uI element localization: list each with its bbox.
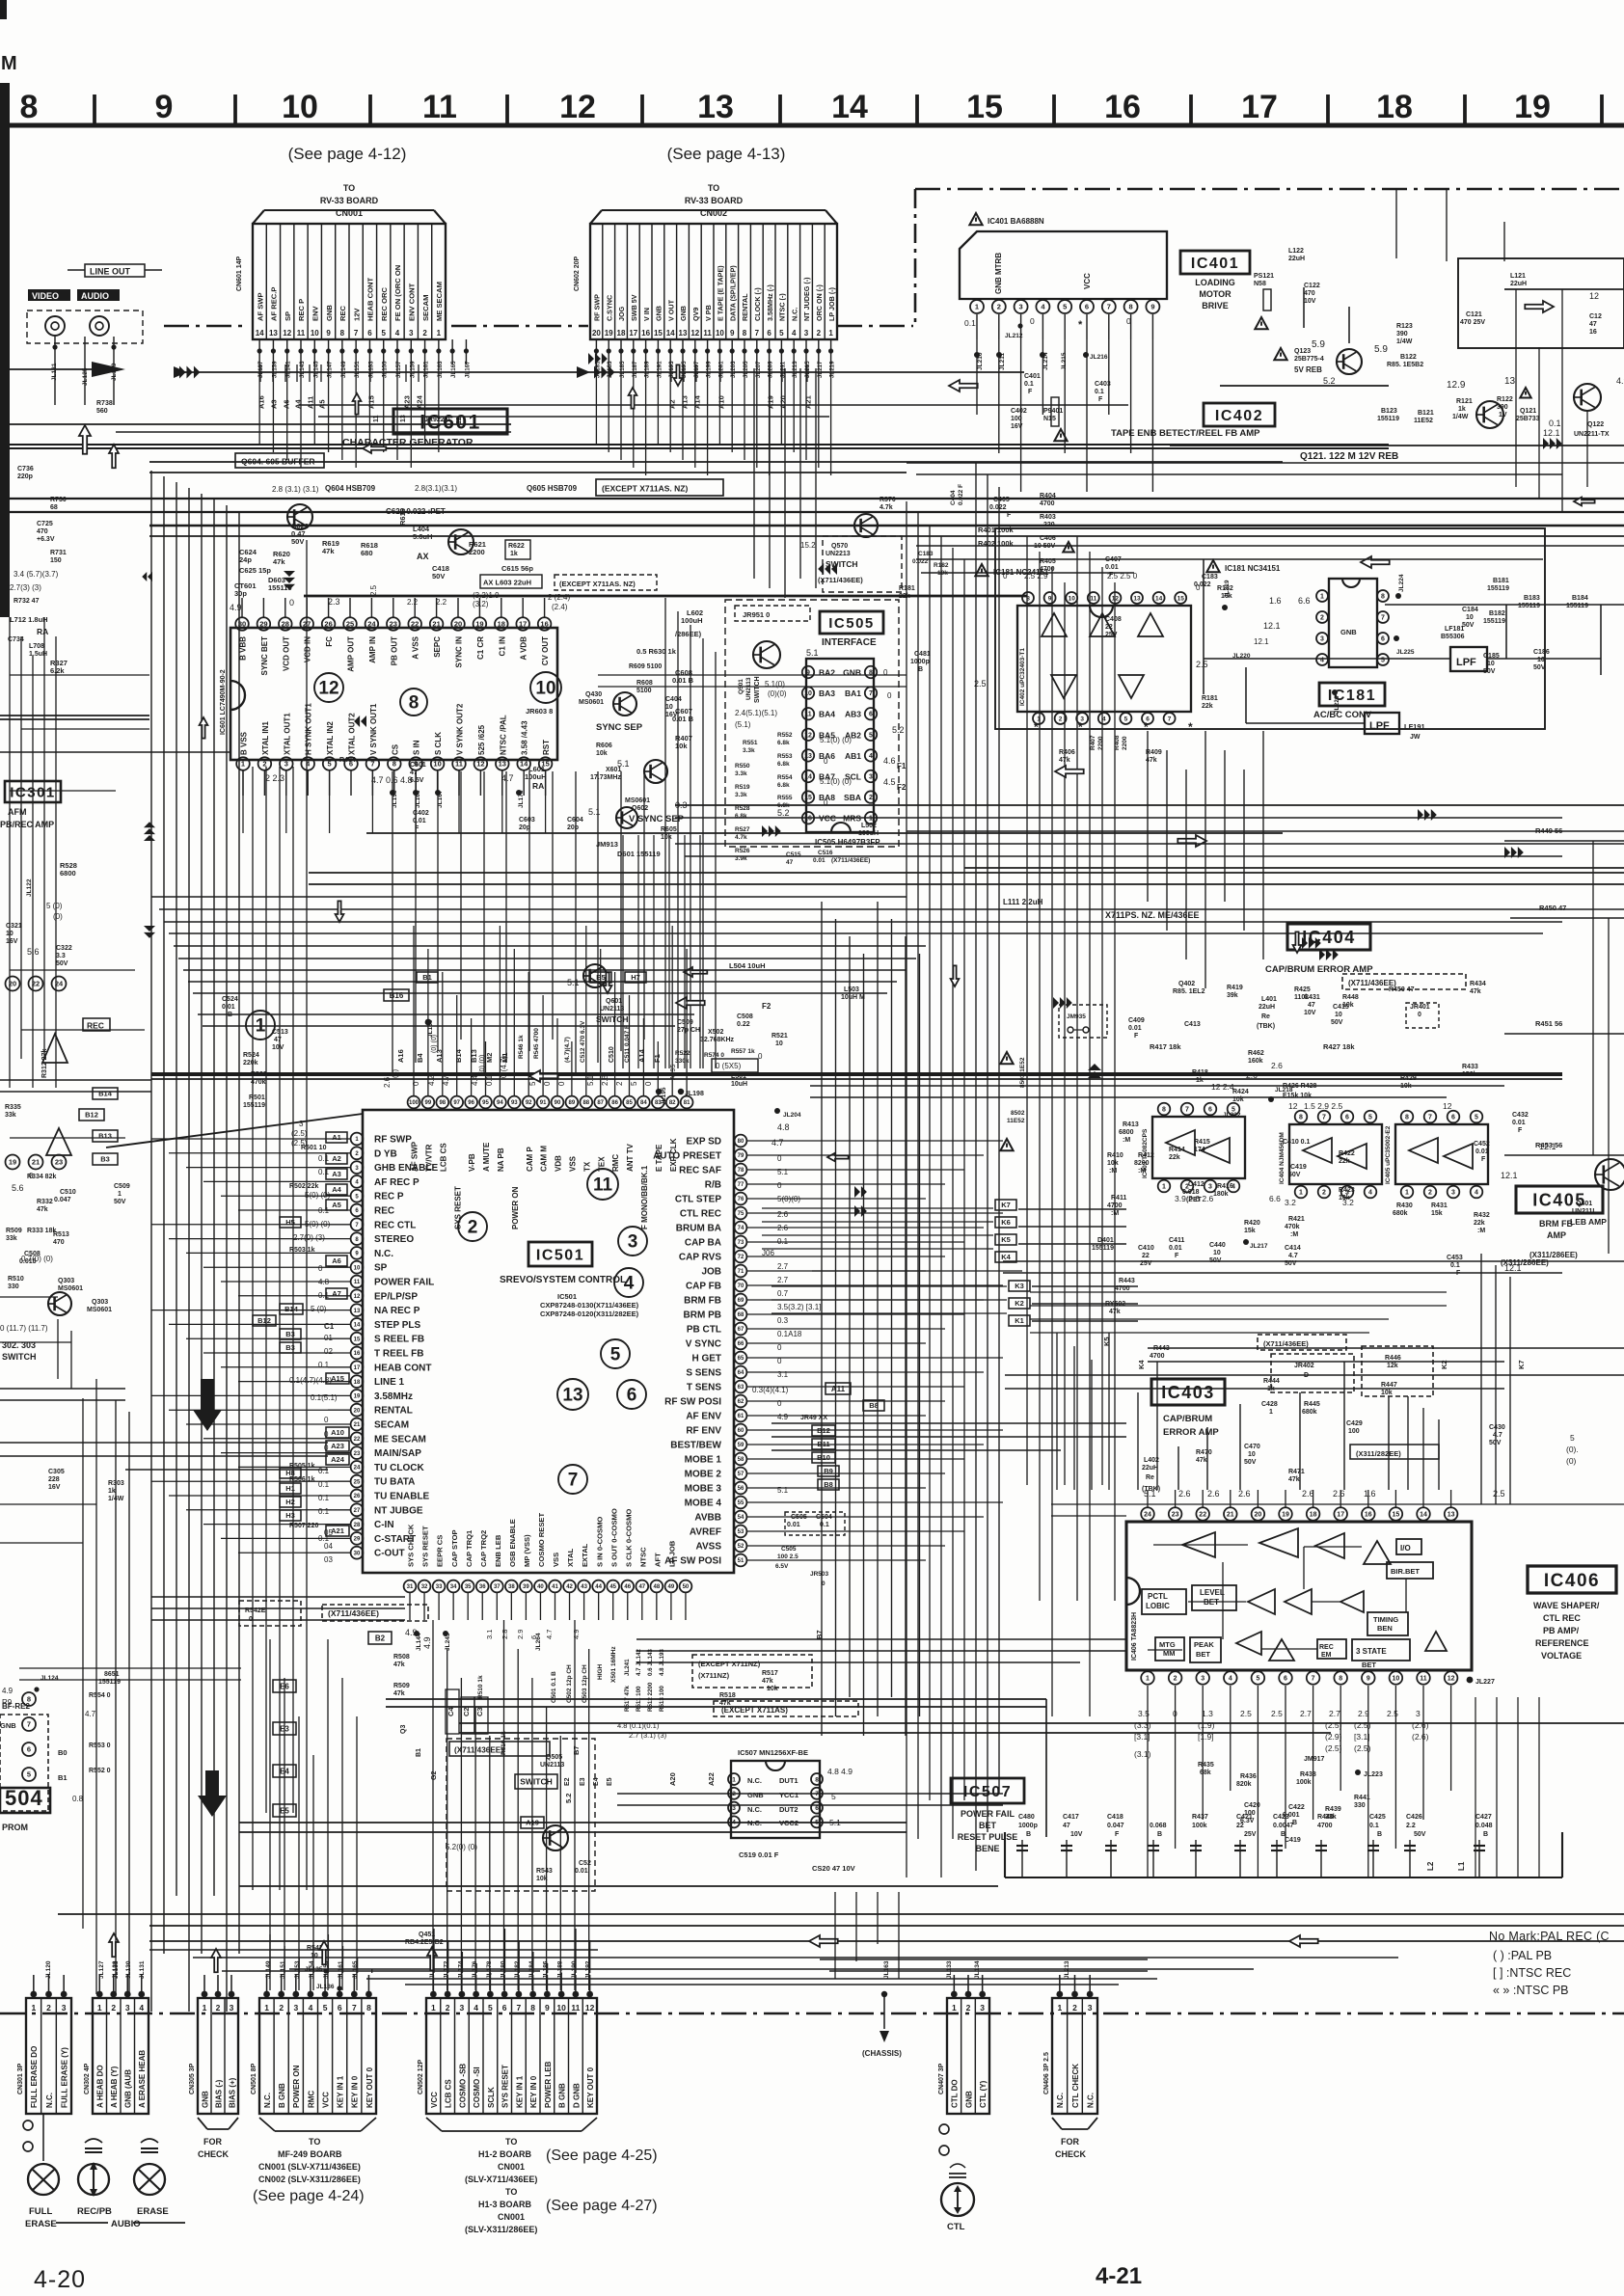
svg-text:9: 9 xyxy=(326,329,331,338)
svg-text:JL217: JL217 xyxy=(1250,1243,1268,1250)
svg-text:8: 8 xyxy=(743,329,747,338)
svg-text:VOLTAGE: VOLTAGE xyxy=(1541,1651,1582,1661)
svg-text:25V: 25V xyxy=(1105,632,1118,638)
svg-text:47k: 47k xyxy=(37,1206,48,1213)
svg-text:R85. 1E5B2: R85. 1E5B2 xyxy=(1387,362,1423,368)
svg-text:2.7: 2.7 xyxy=(777,1276,789,1284)
svg-text:RA: RA xyxy=(532,781,544,791)
svg-text:FE ON (ORC ON: FE ON (ORC ON xyxy=(393,265,402,321)
wire IC501 right bus xyxy=(771,1140,1003,1142)
wire IC406 internals xyxy=(1153,1544,1248,1546)
svg-text:REC: REC xyxy=(374,1206,394,1217)
svg-text:V-PB: V-PB xyxy=(468,1153,476,1172)
svg-text:N.C.: N.C. xyxy=(263,2093,272,2108)
svg-text:B55306: B55306 xyxy=(1441,634,1465,640)
wire vertical IC404 feeds xyxy=(1147,731,1149,902)
svg-text:VSS: VSS xyxy=(569,1155,578,1172)
svg-text:(CHASSIS): (CHASSIS) xyxy=(862,2049,902,2058)
dashed box Q570 xyxy=(823,536,902,592)
svg-text:HEAB CONT: HEAB CONT xyxy=(374,1363,431,1373)
ruler xyxy=(10,123,1624,128)
svg-text:CTL: CTL xyxy=(947,2222,965,2232)
svg-text:IC181: IC181 xyxy=(1328,688,1376,704)
svg-text:2 (2.4): 2 (2.4) xyxy=(548,593,570,602)
svg-text:JL205: JL205 xyxy=(743,361,749,378)
svg-text:MOTOR: MOTOR xyxy=(1199,289,1232,299)
svg-text:(SLV-X711/436EE): (SLV-X711/436EE) xyxy=(465,2174,537,2184)
svg-text:R526: R526 xyxy=(735,848,750,854)
svg-text:50V: 50V xyxy=(291,537,304,546)
annotation circle 5 xyxy=(601,1339,630,1368)
svg-text:82: 82 xyxy=(669,1100,676,1106)
svg-text:NA REC P: NA REC P xyxy=(374,1306,420,1316)
svg-text:(3.1): (3.1) xyxy=(1134,1749,1151,1759)
svg-text:1k: 1k xyxy=(1196,1077,1204,1084)
svg-text:24: 24 xyxy=(1144,1512,1151,1519)
annotation circle 8 xyxy=(400,689,427,716)
svg-text:R451 56: R451 56 xyxy=(1535,1019,1562,1028)
svg-text:CTL REC: CTL REC xyxy=(680,1209,721,1220)
svg-text:1: 1 xyxy=(1269,1409,1273,1416)
svg-text:A15: A15 xyxy=(367,395,376,409)
svg-text:47: 47 xyxy=(1589,321,1597,328)
svg-text:16V: 16V xyxy=(48,1484,61,1491)
svg-text:174: 174 xyxy=(1194,1147,1205,1153)
svg-text:B0: B0 xyxy=(58,1748,68,1757)
svg-text:BA1: BA1 xyxy=(845,689,861,698)
svg-text:7: 7 xyxy=(1428,1115,1432,1121)
svg-text:R423: R423 xyxy=(1339,1187,1355,1194)
svg-text:0.048: 0.048 xyxy=(1475,1823,1493,1829)
svg-text:70: 70 xyxy=(738,1283,744,1289)
svg-text:LINE OUT: LINE OUT xyxy=(90,267,131,277)
svg-text:37: 37 xyxy=(494,1584,501,1590)
svg-text:RV-33 BOARD: RV-33 BOARD xyxy=(685,196,744,205)
junction JL243 xyxy=(443,1631,448,1636)
svg-text:R122: R122 xyxy=(1497,396,1513,403)
board boundary chain line xyxy=(164,325,249,328)
svg-text:100uH: 100uH xyxy=(858,830,879,837)
svg-text:22k: 22k xyxy=(899,593,910,600)
svg-text:R437: R437 xyxy=(1192,1814,1208,1821)
svg-text:6: 6 xyxy=(338,2003,342,2012)
annotation circle 11 xyxy=(587,1169,618,1200)
svg-text:AX: AX xyxy=(417,552,429,561)
svg-text:20p: 20p xyxy=(519,824,530,831)
svg-text:CN602 20P: CN602 20P xyxy=(574,256,581,291)
svg-text:R509: R509 xyxy=(393,1683,410,1689)
svg-text:2: 2 xyxy=(1072,2003,1077,2012)
svg-text:2: 2 xyxy=(216,2003,221,2012)
svg-text:K4: K4 xyxy=(1001,1253,1011,1261)
svg-text:78: 78 xyxy=(738,1168,744,1174)
svg-text:IC402 uPC32403-T1: IC402 uPC32403-T1 xyxy=(1019,648,1026,706)
svg-text:IC501: IC501 xyxy=(536,1247,584,1263)
svg-text:13: 13 xyxy=(804,753,812,760)
svg-text:3.2: 3.2 xyxy=(1285,1198,1296,1207)
svg-text:SP: SP xyxy=(284,311,292,321)
IC501 label xyxy=(528,1242,592,1266)
svg-text:5: 5 xyxy=(1256,1676,1259,1683)
svg-text:CN301 3P: CN301 3P xyxy=(17,2063,24,2094)
svg-text:QV9: QV9 xyxy=(691,308,700,321)
svg-text:JL124: JL124 xyxy=(41,1675,59,1682)
svg-text:3.3k: 3.3k xyxy=(735,792,747,798)
svg-text:COSMO -SI: COSMO -SI xyxy=(473,2066,481,2108)
svg-text:22uH: 22uH xyxy=(1259,1004,1275,1011)
svg-text:JL163: JL163 xyxy=(437,361,444,378)
svg-text:47: 47 xyxy=(274,1037,282,1043)
wire bundle right vertical xyxy=(906,501,907,1877)
wire left margin bundle low xyxy=(95,1379,97,1994)
svg-text:GNB: GNB xyxy=(964,2091,973,2108)
svg-text:L501: L501 xyxy=(731,1073,746,1080)
svg-text:0.1(5.1): 0.1(5.1) xyxy=(311,1393,338,1402)
wire bundle center vertical xyxy=(664,598,666,1068)
svg-text:12.1: 12.1 xyxy=(1263,621,1281,631)
svg-text:C603: C603 xyxy=(519,817,535,824)
svg-text:R557 1k: R557 1k xyxy=(731,1048,755,1055)
svg-text:50V: 50V xyxy=(1209,1257,1222,1264)
svg-text:68: 68 xyxy=(738,1312,744,1318)
svg-text:AFM: AFM xyxy=(8,807,27,817)
svg-text:C12: C12 xyxy=(1589,313,1602,320)
svg-text:(3.2): (3.2) xyxy=(473,600,489,608)
svg-text:155119: 155119 xyxy=(1377,416,1399,422)
svg-text:SBA: SBA xyxy=(844,793,861,802)
annotation circle 6 xyxy=(617,1380,646,1409)
svg-text:R85. 1EL2: R85. 1EL2 xyxy=(1173,988,1205,995)
svg-text:AFT: AFT xyxy=(653,1553,662,1567)
svg-text:11: 11 xyxy=(571,2003,580,2012)
svg-text:A VDB: A VDB xyxy=(520,636,528,661)
svg-text:0.3: 0.3 xyxy=(777,1316,789,1325)
node pin 6 xyxy=(22,1742,36,1756)
svg-text:R/B: R/B xyxy=(705,1180,721,1191)
svg-text:R438: R438 xyxy=(1300,1771,1316,1778)
wire right verticals midlow xyxy=(1137,1392,1139,1490)
page edge bar xyxy=(0,83,10,617)
svg-text:5: 5 xyxy=(869,732,873,739)
svg-text:30p: 30p xyxy=(234,589,247,598)
svg-text:R470: R470 xyxy=(1196,1449,1212,1456)
svg-text:GNB: GNB xyxy=(655,306,663,321)
svg-text:B122: B122 xyxy=(1400,354,1417,361)
svg-text:PB CTL: PB CTL xyxy=(687,1325,721,1336)
svg-text:22: 22 xyxy=(1236,1823,1244,1829)
svg-text:(2.6): (2.6) xyxy=(1412,1720,1429,1730)
svg-text:NTSC (-): NTSC (-) xyxy=(778,293,787,321)
svg-text:47k: 47k xyxy=(1470,988,1481,995)
svg-text:B181: B181 xyxy=(1493,578,1509,584)
svg-text:POWER ON: POWER ON xyxy=(292,2065,301,2108)
svg-text:AX L603 22uH: AX L603 22uH xyxy=(483,579,531,587)
svg-text:2: 2 xyxy=(446,2003,450,2012)
svg-text:A24: A24 xyxy=(331,1455,345,1464)
svg-text:14: 14 xyxy=(256,329,264,338)
wires IC181 xyxy=(1204,658,1450,660)
svg-text:IC401 BA6888N: IC401 BA6888N xyxy=(988,217,1044,226)
svg-text:R9: R9 xyxy=(2,1698,13,1707)
svg-text:FULL ERASE (Y): FULL ERASE (Y) xyxy=(61,2047,69,2108)
svg-text:TU ENABLE: TU ENABLE xyxy=(374,1492,430,1502)
IC401 pins xyxy=(970,300,984,313)
svg-text:10k: 10k xyxy=(675,742,688,750)
svg-text:(4.7)(4.7): (4.7)(4.7) xyxy=(564,1037,571,1063)
svg-text:51: 51 xyxy=(738,1558,744,1564)
svg-text:25V: 25V xyxy=(1140,1260,1152,1267)
svg-text:TO: TO xyxy=(708,183,719,193)
svg-text:0.018: 0.018 xyxy=(1182,1189,1200,1196)
svg-text:B182: B182 xyxy=(1489,610,1505,617)
svg-text:53: 53 xyxy=(738,1529,744,1535)
svg-text:0.047: 0.047 xyxy=(1107,1823,1124,1829)
svg-text:C419: C419 xyxy=(1290,1164,1307,1171)
svg-text:K6: K6 xyxy=(1001,1218,1011,1227)
svg-text:57: 57 xyxy=(738,1472,744,1477)
svg-text:5.9: 5.9 xyxy=(1312,339,1325,350)
svg-text:2.5: 2.5 xyxy=(1271,1709,1283,1718)
svg-text:STEREO: STEREO xyxy=(374,1234,414,1245)
svg-text:2: 2 xyxy=(46,2003,51,2012)
svg-text:88: 88 xyxy=(582,1100,589,1106)
svg-text:C501 0.1 B: C501 0.1 B xyxy=(551,1671,557,1703)
svg-text:B4: B4 xyxy=(416,1053,424,1063)
svg-text:155119: 155119 xyxy=(1487,585,1509,592)
bracket CN406 xyxy=(1052,2118,1062,2129)
svg-text:13: 13 xyxy=(1448,1512,1455,1519)
arrow to line out xyxy=(92,362,125,377)
svg-text:0.22: 0.22 xyxy=(737,1021,750,1028)
svg-text:JL198: JL198 xyxy=(685,1091,704,1097)
svg-text:4700: 4700 xyxy=(1317,1823,1333,1829)
svg-text:C186: C186 xyxy=(1533,649,1550,656)
LPF box LF181 xyxy=(1450,647,1487,671)
svg-text:M: M xyxy=(1,53,17,74)
svg-text:C183: C183 xyxy=(1202,574,1218,581)
svg-text:N.C.: N.C. xyxy=(747,1819,762,1827)
op-amp U IC507 chip xyxy=(731,1761,820,1838)
svg-text:LPF: LPF xyxy=(1456,657,1476,668)
svg-text:0: 0 xyxy=(777,1181,782,1190)
svg-text:1: 1 xyxy=(97,2003,102,2012)
wire JM913 xyxy=(366,832,1283,834)
svg-text:68: 68 xyxy=(50,504,58,511)
svg-text:JL136: JL136 xyxy=(316,1984,335,1990)
svg-text:BA2: BA2 xyxy=(819,668,835,678)
svg-text:66: 66 xyxy=(738,1341,744,1347)
svg-text:50V: 50V xyxy=(56,960,68,967)
svg-text:B2: B2 xyxy=(375,1634,386,1642)
svg-text:1: 1 xyxy=(1162,1184,1166,1191)
svg-text:R554 0: R554 0 xyxy=(89,1692,111,1699)
svg-text:14: 14 xyxy=(520,760,528,769)
connector CN407 xyxy=(947,1998,989,2114)
svg-text:R606: R606 xyxy=(596,743,612,749)
svg-text:C725: C725 xyxy=(37,521,53,527)
transistor Q401 xyxy=(1595,1159,1624,1190)
svg-text:JL189: JL189 xyxy=(644,361,651,378)
svg-text:40: 40 xyxy=(537,1584,544,1590)
svg-text:H1-3 BOARB: H1-3 BOARB xyxy=(478,2200,532,2209)
svg-text:56: 56 xyxy=(738,1486,744,1492)
svg-text:A14: A14 xyxy=(693,394,702,409)
svg-text:11: 11 xyxy=(422,89,457,125)
svg-text:OSB ENABLE: OSB ENABLE xyxy=(508,1519,517,1567)
chevrons up left dip xyxy=(1088,1071,1101,1078)
svg-text:(EXCEPT X711AS. NZ): (EXCEPT X711AS. NZ) xyxy=(602,484,688,494)
svg-text:25B733: 25B733 xyxy=(1516,416,1540,422)
svg-text:3.3k: 3.3k xyxy=(743,747,755,754)
svg-text:GNB: GNB xyxy=(0,1721,16,1730)
svg-text:BEST/BEW: BEST/BEW xyxy=(670,1441,721,1451)
svg-text:N.C.: N.C. xyxy=(45,2093,54,2108)
svg-text:2: 2 xyxy=(997,303,1001,311)
svg-text:IC406 TA8823H: IC406 TA8823H xyxy=(1131,1612,1138,1661)
svg-text:R335: R335 xyxy=(5,1104,21,1111)
svg-text:C430: C430 xyxy=(1489,1424,1505,1431)
svg-text:BET: BET xyxy=(1196,1650,1210,1659)
svg-text:CN601 14P: CN601 14P xyxy=(236,256,243,291)
svg-text:AB1: AB1 xyxy=(845,751,861,761)
svg-text:04: 04 xyxy=(324,1542,333,1551)
svg-text:9: 9 xyxy=(1048,595,1052,602)
svg-text:JL213: JL213 xyxy=(792,361,798,378)
svg-text:50V: 50V xyxy=(114,1199,126,1205)
svg-text:C421: C421 xyxy=(1236,1814,1253,1821)
svg-text:F: F xyxy=(1134,1033,1139,1040)
svg-text:C1: C1 xyxy=(324,1322,335,1331)
svg-text:C470: C470 xyxy=(1244,1444,1260,1450)
svg-text:17: 17 xyxy=(629,329,637,338)
arrow marks band xyxy=(676,997,705,1009)
svg-text:14: 14 xyxy=(354,1323,361,1329)
svg-text:6: 6 xyxy=(502,2003,507,2012)
svg-text:TO: TO xyxy=(505,2137,517,2147)
svg-text:C1 CR: C1 CR xyxy=(476,636,485,660)
label AUDIO xyxy=(77,289,120,301)
svg-text:JM935: JM935 xyxy=(1067,1013,1086,1020)
svg-text:JL120: JL120 xyxy=(45,1960,52,1979)
svg-text:2: 2 xyxy=(615,1081,624,1086)
svg-text:V OUT: V OUT xyxy=(666,299,675,321)
svg-text:1k: 1k xyxy=(510,551,518,557)
svg-text:MOBE 1: MOBE 1 xyxy=(685,1455,722,1466)
svg-text:65: 65 xyxy=(738,1356,744,1362)
svg-text:A195: A195 xyxy=(670,1065,677,1080)
svg-text:ENV: ENV xyxy=(311,305,319,321)
svg-text:22: 22 xyxy=(1105,624,1113,631)
svg-text:AMP IN: AMP IN xyxy=(368,636,377,663)
IC507 label xyxy=(951,1778,1024,1803)
svg-text:2: 2 xyxy=(1059,716,1063,722)
svg-text:0.1: 0.1 xyxy=(1024,381,1034,388)
svg-text:C481: C481 xyxy=(914,651,931,658)
svg-text:T SENS: T SENS xyxy=(687,1383,721,1393)
svg-text:7: 7 xyxy=(352,2003,357,2012)
svg-text:F: F xyxy=(1175,1253,1179,1259)
svg-text:01: 01 xyxy=(324,1334,333,1342)
svg-text:JL209: JL209 xyxy=(768,361,774,378)
svg-text:C413: C413 xyxy=(1184,1021,1201,1028)
svg-text:5.1(0) (0): 5.1(0) (0) xyxy=(820,777,852,786)
svg-text:47k: 47k xyxy=(322,547,335,555)
svg-text:R551: R551 xyxy=(743,740,758,746)
svg-text:0: 0 xyxy=(1126,316,1131,326)
wire bundle left vertical xyxy=(150,471,152,2012)
svg-text:JR503: JR503 xyxy=(810,1571,829,1578)
wire bus 386 xyxy=(174,371,1024,373)
annotation circle 2 xyxy=(458,1212,487,1241)
svg-text:2: 2 xyxy=(817,329,822,338)
svg-text:10: 10 xyxy=(556,2003,566,2012)
wire band mid xyxy=(151,896,907,898)
svg-text:B VBB: B VBB xyxy=(239,636,248,661)
svg-text:0.047: 0.047 xyxy=(54,1197,71,1203)
svg-text:R508: R508 xyxy=(393,1654,410,1661)
svg-text:10k: 10k xyxy=(767,1686,778,1692)
svg-text:11: 11 xyxy=(455,760,463,769)
svg-text:R521: R521 xyxy=(771,1033,788,1040)
svg-text:20: 20 xyxy=(354,1408,361,1414)
svg-text:26: 26 xyxy=(324,620,332,629)
svg-text:HEAB CONT: HEAB CONT xyxy=(366,277,375,321)
svg-text:R420: R420 xyxy=(1244,1220,1260,1227)
svg-text:0.1A18: 0.1A18 xyxy=(777,1330,802,1338)
IC501 left node boxes xyxy=(326,1132,347,1143)
svg-text:0.022 F: 0.022 F xyxy=(958,484,964,505)
svg-text:C405: C405 xyxy=(993,497,1010,503)
svg-text:F: F xyxy=(1098,396,1103,403)
svg-text:5: 5 xyxy=(328,760,332,769)
svg-text:7: 7 xyxy=(869,690,873,697)
svg-text:R462: R462 xyxy=(1248,1050,1264,1057)
inductor L603 xyxy=(480,575,542,588)
junctions JL210-216 xyxy=(974,352,980,358)
wire long bus pair y517-545 xyxy=(0,498,1624,500)
svg-text:6.5V: 6.5V xyxy=(410,777,424,784)
svg-text:JL241: JL241 xyxy=(624,1659,631,1676)
svg-text:F2: F2 xyxy=(897,783,907,792)
wire verticals into CN501 xyxy=(269,1934,271,1973)
svg-text:6800: 6800 xyxy=(1119,1129,1134,1136)
svg-text:C404: C404 xyxy=(950,490,957,505)
svg-text:12: 12 xyxy=(804,732,812,739)
arrow left on 400 xyxy=(949,380,978,392)
value K nodes xyxy=(995,1200,1016,1210)
svg-text:7: 7 xyxy=(1312,1676,1315,1683)
svg-text:39: 39 xyxy=(523,1584,529,1590)
svg-text:4: 4 xyxy=(624,1274,635,1294)
svg-text:0.1: 0.1 xyxy=(485,1074,494,1086)
warning PS121 xyxy=(1255,317,1267,329)
svg-text:13: 13 xyxy=(1133,595,1141,602)
svg-text:C502 12p CH: C502 12p CH xyxy=(566,1664,573,1703)
svg-text:100uH: 100uH xyxy=(681,616,703,625)
svg-text:C418: C418 xyxy=(1107,1814,1123,1821)
svg-text:(See page 4-27): (See page 4-27) xyxy=(546,2198,658,2214)
svg-text:17: 17 xyxy=(519,620,527,629)
svg-text:R450 47: R450 47 xyxy=(1539,904,1566,912)
svg-text:7: 7 xyxy=(27,1720,31,1729)
svg-text:12.1: 12.1 xyxy=(1539,1142,1556,1151)
svg-text:KEY IN 1: KEY IN 1 xyxy=(337,2075,345,2108)
svg-text:98: 98 xyxy=(439,1100,446,1106)
svg-text:16: 16 xyxy=(804,816,812,823)
svg-text:Re: Re xyxy=(1146,1474,1154,1481)
svg-text:5: 5 xyxy=(381,329,386,338)
svg-text:8: 8 xyxy=(1381,594,1385,601)
